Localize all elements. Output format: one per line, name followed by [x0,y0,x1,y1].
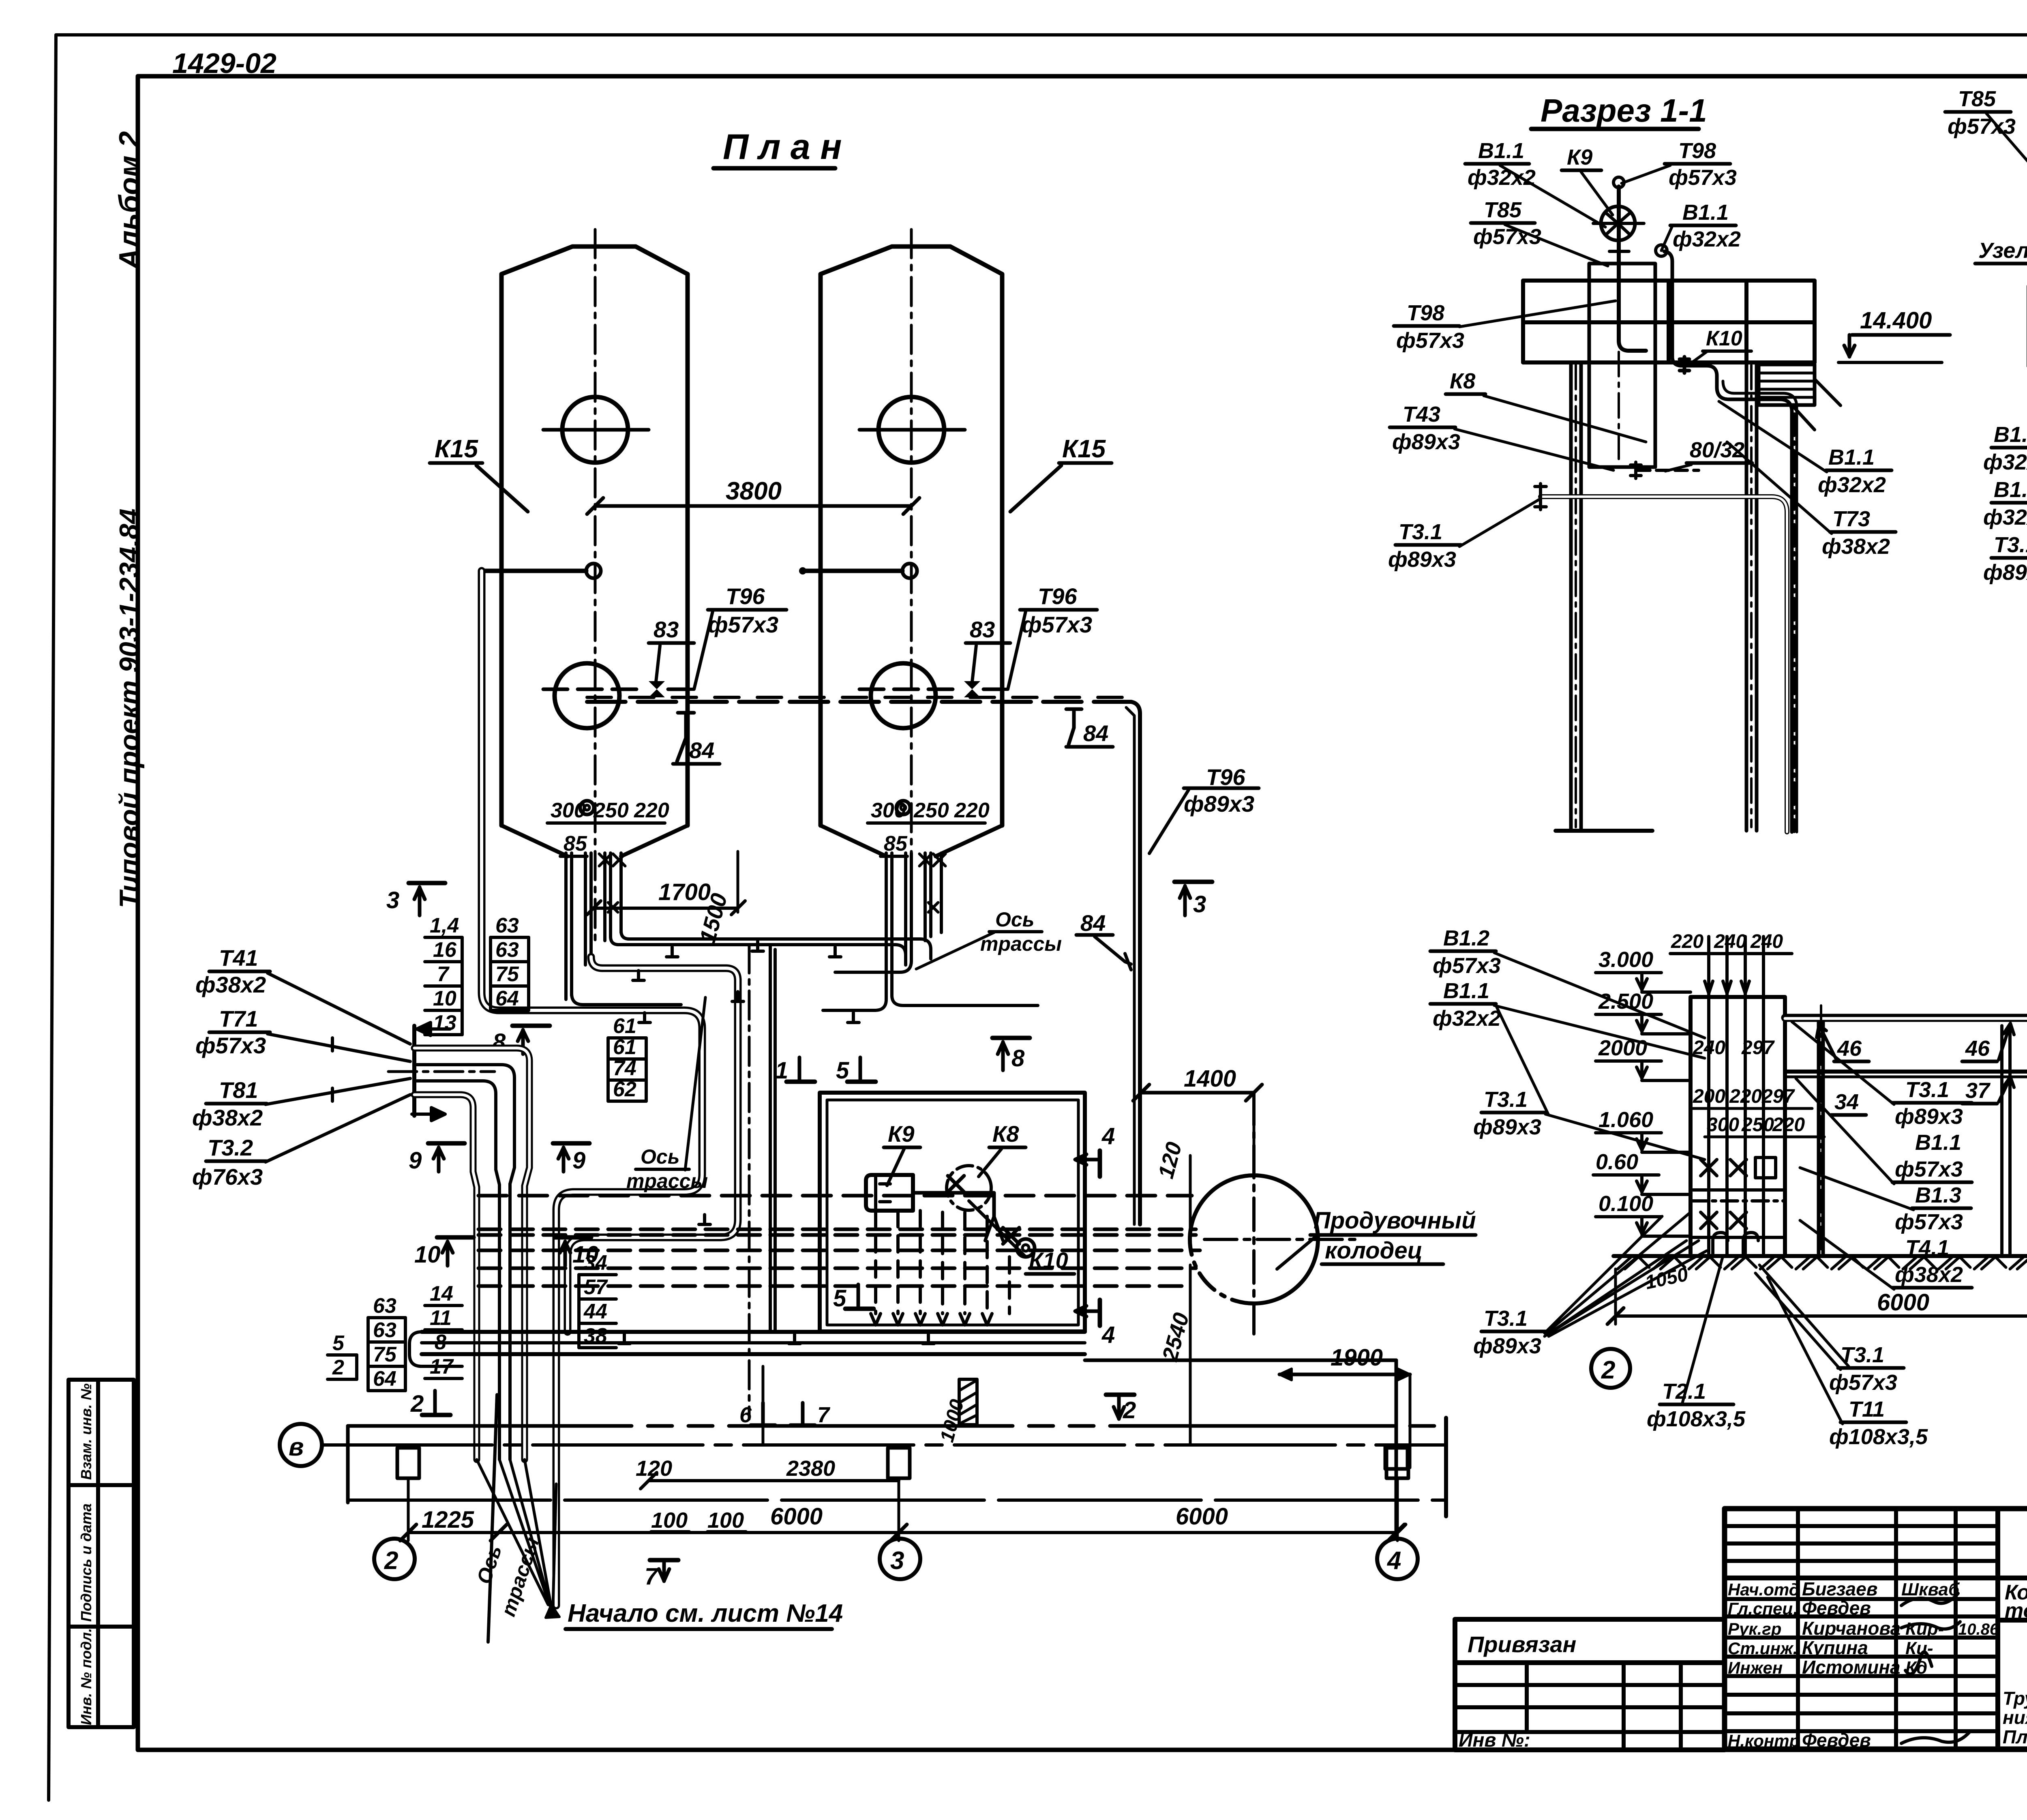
svg-text:ф32х2: ф32х2 [1433,1006,1501,1031]
bundle start cap with arrows [412,1026,416,1116]
svg-text:Истомина: Истомина [1802,1657,1901,1678]
thick central T96 pipe descending [1785,468,2027,1018]
T96 f89x3 label right [1184,764,1254,817]
T96 f57x3 labels [708,583,1092,637]
K10 small fitting on slab [1680,357,1689,373]
svg-text:Т41: Т41 [219,945,258,971]
left tank centerline [594,229,597,941]
svg-text:75: 75 [373,1343,397,1366]
svg-text:Привязан: Привязан [1468,1631,1576,1657]
svg-text:Инжен: Инжен [1728,1658,1783,1677]
svg-text:100: 100 [651,1508,688,1533]
svg-text:Февдев: Февдев [1802,1730,1871,1751]
svg-text:Кирчанова: Кирчанова [1802,1618,1901,1639]
section marks 1 and 5 (middle) [786,1080,815,1084]
drain hooks at bottom of riser [1713,1233,1758,1256]
svg-text:В1.2: В1.2 [1443,926,1489,950]
svg-text:Т3.1: Т3.1 [1399,520,1442,544]
svg-text:297: 297 [1741,1037,1775,1059]
svg-text:16: 16 [433,938,457,962]
svg-text:ф89х3: ф89х3 [1983,560,2027,585]
svg-text:Ось: Ось [641,1145,679,1168]
svg-text:Т98: Т98 [1678,139,1716,163]
svg-text:200: 200 [1693,1086,1725,1107]
K15 labels with leaders [435,435,1106,463]
svg-text:1429-02: 1429-02 [172,47,276,79]
svg-text:14: 14 [430,1282,453,1306]
svg-text:11: 11 [430,1306,452,1330]
svg-text:трассы: трассы [626,1170,708,1192]
svg-text:46: 46 [1965,1036,1990,1061]
svg-text:10.86: 10.86 [1958,1621,1999,1638]
dimension line 1225/6000/6000 [408,1531,1397,1534]
svg-text:6000: 6000 [1877,1289,1929,1316]
svg-text:В1.1: В1.1 [1828,445,1875,469]
wall link to grid 4 [1085,1359,1396,1362]
name rows [1725,1597,1998,1601]
svg-text:3: 3 [386,887,399,913]
svg-text:Продувочный: Продувочный [1313,1207,1476,1234]
svg-text:63: 63 [495,938,519,962]
svg-text:300: 300 [551,799,586,822]
K9 valve assembly on top [1601,206,1635,240]
svg-text:220: 220 [1729,1086,1762,1107]
labels fan left [1983,422,2027,585]
svg-text:14.400: 14.400 [1860,307,1932,334]
svg-text:Ось: Ось [995,908,1034,931]
svg-text:ф57х3: ф57х3 [1669,165,1737,190]
svg-text:К9: К9 [1567,145,1592,169]
svg-text:100: 100 [707,1508,744,1533]
svg-text:Инв. № подл.: Инв. № подл. [78,1628,94,1725]
svg-text:топливо- печное бытовое.: топливо- печное бытовое. [2005,1599,2027,1623]
T98 pipe descending inside shaft, elbow right at bottom [1619,284,1646,351]
svg-text:ф89х3: ф89х3 [1392,430,1460,454]
svg-text:6000: 6000 [770,1503,823,1530]
horizontal pipe runs to the right [1785,1015,2027,1022]
svg-text:10: 10 [414,1241,441,1268]
svg-text:Т3.1: Т3.1 [1484,1306,1528,1331]
svg-text:Т96: Т96 [726,583,765,609]
svg-text:2380: 2380 [786,1456,835,1481]
svg-text:трассы: трассы [980,933,1062,955]
svg-text:Т43: Т43 [1403,402,1440,427]
chimney shaft above/below slab [1589,264,1655,467]
svg-text:ния котельной (наружные): ния котельной (наружные) [2003,1707,2027,1728]
svg-text:Инв №:: Инв №: [1459,1730,1530,1751]
svg-text:Начало см. лист №14: Начало см. лист №14 [568,1599,843,1627]
svg-text:ф57х3: ф57х3 [1829,1370,1897,1395]
svg-text:1900: 1900 [1331,1344,1383,1371]
section mark 3 left [409,881,445,885]
svg-text:6000: 6000 [1176,1503,1228,1530]
svg-text:ф108х3,5: ф108х3,5 [1829,1425,1928,1449]
internal verticals of riser [1709,997,1763,1256]
svg-text:240: 240 [1714,931,1746,952]
svg-text:2: 2 [384,1547,398,1575]
svg-text:64: 64 [495,987,519,1010]
svg-text:3: 3 [1193,891,1206,918]
svg-text:Подпись и дата: Подпись и дата [78,1503,94,1622]
dimensions 300 250 220 above necks [551,799,990,855]
support posts [1819,1022,1823,1256]
svg-text:300: 300 [871,799,906,822]
section marks 4 (right of building) [1098,1151,1102,1177]
T85 connection lines at y=1408 [586,564,601,578]
svg-text:84: 84 [1080,910,1106,936]
svg-text:ф57х3: ф57х3 [1473,225,1541,249]
svg-text:Т96: Т96 [1038,583,1077,609]
svg-text:17: 17 [430,1355,454,1378]
svg-text:Альбом 2: Альбом 2 [114,131,146,270]
columns (walls) below slab [1571,362,1757,831]
svg-text:К15: К15 [1062,435,1106,463]
support T-ticks on pipe runs [619,941,934,1344]
svg-text:К8: К8 [1450,369,1475,393]
svg-text:3800: 3800 [726,477,782,505]
svg-text:В1.1: В1.1 [1994,478,2027,502]
svg-text:9: 9 [409,1147,422,1174]
vertical columns of left table [1796,1509,1800,1749]
svg-text:120: 120 [1154,1140,1187,1181]
svg-text:63: 63 [495,914,519,937]
svg-text:Т3.1: Т3.1 [1905,1078,1949,1102]
svg-text:Т3.2: Т3.2 [208,1135,253,1160]
left risers connecting mains [409,1332,462,1366]
svg-text:2: 2 [332,1356,344,1379]
svg-text:Типовой проект 903-1-234.84: Типовой проект 903-1-234.84 [114,508,145,908]
leaders from bottom-left T3.1 label to riser base [1545,1212,1707,1336]
dims above riser: 220 240 240 [1671,931,1783,952]
left tank funnel [501,825,568,856]
K8 circle with valve [947,1166,991,1210]
svg-text:220: 220 [954,799,990,822]
ticks across bundle [331,1038,334,1101]
svg-text:5: 5 [836,1057,849,1084]
svg-text:1400: 1400 [1184,1065,1236,1092]
elevation ladder left of riser [1596,948,1653,1216]
B1.1 pipe from right top, descending right of shaft [1664,251,1717,387]
svg-text:3: 3 [890,1547,904,1575]
svg-text:Февдев: Февдев [1802,1597,1871,1618]
svg-text:220: 220 [1671,931,1703,952]
texts [1728,1527,2027,1792]
svg-text:46: 46 [1837,1036,1862,1061]
svg-text:10: 10 [433,987,456,1010]
svg-text:ф89х3: ф89х3 [1473,1115,1541,1139]
hatched beam right of right column [1759,364,1815,405]
svg-text:240: 240 [1750,931,1783,952]
svg-text:83: 83 [654,617,679,642]
svg-text:Шкваб: Шкваб [1901,1580,1960,1599]
svg-text:1,4: 1,4 [430,914,459,937]
pipes descending: pair to bottom right [1717,387,1792,832]
svg-text:ф89х3: ф89х3 [1473,1334,1541,1358]
svg-text:Гл.спец.: Гл.спец. [1728,1599,1798,1618]
svg-text:ф89х3: ф89х3 [1184,791,1254,817]
svg-text:Т81: Т81 [219,1077,258,1103]
svg-text:7: 7 [437,963,450,986]
svg-text:250: 250 [593,799,629,822]
svg-text:8: 8 [1011,1045,1025,1072]
svg-text:64: 64 [373,1367,396,1391]
top labels [1948,87,2027,272]
svg-text:85: 85 [884,832,908,855]
svg-text:План. Разрезы.: План. Разрезы. [2003,1726,2027,1747]
svg-text:Т96: Т96 [1206,764,1245,790]
svg-text:4: 4 [1101,1322,1115,1348]
svg-text:6: 6 [739,1403,752,1427]
svg-text:7: 7 [645,1563,659,1590]
left tank drain fitting [580,801,594,815]
svg-text:75: 75 [495,963,519,986]
svg-text:ф76х3: ф76х3 [192,1164,263,1190]
svg-text:ф57х3: ф57х3 [1396,328,1464,353]
section mark 3 right [1174,880,1212,884]
svg-text:1: 1 [775,1057,788,1084]
svg-text:Трубопроводы вне зда-: Трубопроводы вне зда- [2003,1688,2027,1709]
svg-text:8: 8 [435,1331,446,1354]
4 pipes: two double, two single + dashdot [414,1048,529,1460]
svg-text:Т71: Т71 [219,1006,258,1031]
svg-text:Т98: Т98 [1407,301,1444,325]
signature squiggles [1901,1593,1958,1606]
svg-text:61: 61 [613,1014,636,1038]
svg-text:34: 34 [1834,1090,1859,1114]
63/63/75/64 + 14/11/8/17 + 5/2 cluster [332,1282,454,1391]
hatched column + 1000 [959,1379,977,1425]
svg-text:Разрез 1-1: Разрез 1-1 [1541,92,1707,129]
Ось трассы label (upper, middle) [980,908,1062,955]
svg-text:К9: К9 [888,1121,915,1147]
svg-text:К15: К15 [435,435,479,463]
nested horizontal runs: drawn as black path + white core (double line pipes) [482,571,1038,1606]
svg-text:4: 4 [1386,1547,1401,1575]
dashed burner line + valve, left tank [543,688,645,691]
svg-text:220: 220 [1772,1114,1805,1136]
svg-text:13: 13 [433,1011,456,1035]
svg-text:10: 10 [572,1241,599,1268]
84 labels [689,720,1108,936]
svg-text:4: 4 [1101,1123,1115,1149]
section mark 5 inside building [845,1307,874,1311]
svg-text:300: 300 [1707,1114,1739,1136]
riser block rectangle [1691,997,1785,1256]
svg-text:ф32х2: ф32х2 [1673,227,1741,251]
right tank K15 outline [821,247,1002,825]
2380 / 120 / 100 100 dims [636,1456,835,1533]
left neck pipes descend [566,853,621,999]
left tank upper circle [562,397,628,463]
valves inside riser [1691,1158,1785,1237]
svg-text:Т11: Т11 [1849,1397,1885,1421]
svg-text:63: 63 [373,1294,396,1318]
svg-text:Рук.гр: Рук.гр [1728,1619,1781,1638]
T21 T11 labels bottom [1647,1343,1928,1449]
svg-text:Узел Б: Узел Б [1978,238,2027,263]
right side structure [1998,1618,2027,1623]
labels [1388,139,1890,572]
leader lines [1455,165,1832,547]
svg-text:ф32х2: ф32х2 [1983,450,2027,474]
svg-text:в: в [289,1433,304,1461]
svg-text:85: 85 [564,832,587,855]
46 46 45 37 36 34 labels with arrows [1834,1036,2027,1114]
svg-text:83: 83 [970,617,995,642]
svg-text:Бигзаев: Бигзаев [1802,1578,1878,1599]
4000? vertical dim small rotated near hatch [762,1366,765,1443]
80/32 dashed short line [1638,469,1699,472]
stamp column boxes [69,1380,134,1727]
ground line + hatch [1613,1254,2027,1258]
right neck pipes descend [886,853,941,999]
left tank lower circle [555,663,619,728]
svg-text:ф38х2: ф38х2 [195,972,266,997]
svg-text:38: 38 [584,1324,607,1348]
svg-text:220: 220 [634,799,669,822]
svg-text:297: 297 [1761,1086,1795,1107]
svg-text:0.60: 0.60 [1596,1150,1638,1174]
svg-text:В1.1: В1.1 [1478,139,1524,163]
section marks 9, 10 [428,1141,465,1146]
svg-text:ф57х3: ф57х3 [1895,1210,1963,1234]
svg-text:2: 2 [1123,1397,1136,1423]
upper small grid rows [1725,1524,1998,1528]
column stubs [397,1448,419,1478]
svg-text:ф89х3: ф89х3 [1388,547,1456,572]
svg-text:7: 7 [817,1403,831,1427]
svg-text:ф32х2: ф32х2 [1468,165,1536,190]
roof slab band with grid [1523,281,1815,362]
svg-text:57: 57 [584,1276,608,1299]
svg-text:5: 5 [332,1331,345,1355]
svg-text:В1.1: В1.1 [1443,979,1489,1003]
K9 pump assembly [866,1175,913,1211]
svg-text:Т85: Т85 [1484,198,1522,222]
svg-text:Н.контр: Н.контр [1728,1731,1800,1750]
circled v axis [280,1424,322,1466]
svg-text:колодец: колодец [1325,1237,1423,1264]
right side mirrored bends [823,999,886,1010]
svg-text:В1.1: В1.1 [1682,200,1729,225]
svg-text:Купина: Купина [1802,1637,1868,1658]
svg-text:К8: К8 [992,1121,1019,1147]
svg-text:ф32х2: ф32х2 [1983,505,2027,529]
svg-text:5: 5 [833,1285,846,1312]
svg-text:9: 9 [572,1147,585,1174]
solid mains below corridor [422,1330,1085,1334]
svg-text:44: 44 [583,1300,607,1323]
building wall double rectangle [820,1093,1085,1331]
svg-text:Нач.отд: Нач.отд [1728,1580,1800,1599]
svg-text:П л а н: П л а н [723,126,842,167]
dim stacks (small ladders of numbers) [430,914,459,1035]
grid circles 2 and 3 [1591,1349,1630,1388]
svg-text:1225: 1225 [422,1507,474,1533]
svg-text:ф57х3: ф57х3 [195,1033,266,1058]
svg-text:250: 250 [913,799,949,822]
svg-text:2: 2 [410,1391,424,1417]
left tank K15 outline [501,247,688,825]
pipes above riser with arrows down [1705,937,1763,997]
svg-text:Т3.1: Т3.1 [1484,1087,1528,1112]
83 labels [654,617,995,642]
svg-text:Т3.1: Т3.1 [1994,533,2027,557]
svg-text:ф38х2: ф38х2 [192,1105,263,1130]
center vertical dash-dot (axis of trasse) [748,945,751,1419]
long run from right neck to right edge pipes [892,995,1038,1005]
svg-text:Т85: Т85 [1958,87,1996,111]
svg-text:ф89х3: ф89х3 [1895,1104,1963,1129]
right tank [859,688,960,691]
svg-text:ф57х3: ф57х3 [708,612,778,637]
section marks 8 [512,1024,550,1028]
K10 valve on diagonal [1003,1228,1019,1244]
long T96 dashed run across and elbow down right [587,700,1131,704]
svg-text:ф57х3: ф57х3 [1433,954,1501,978]
T3.1 horizontal pipe lower left [1541,497,1787,832]
svg-text:63: 63 [373,1318,396,1342]
svg-text:В1.1: В1.1 [1915,1130,1961,1155]
svg-text:1700: 1700 [658,879,711,905]
svg-text:2: 2 [1601,1356,1615,1384]
svg-text:К10: К10 [1706,327,1742,350]
svg-text:84: 84 [1083,720,1108,746]
svg-text:250: 250 [1741,1114,1774,1136]
svg-text:1.060: 1.060 [1598,1108,1653,1132]
svg-text:Ст.инж.: Ст.инж. [1728,1639,1798,1658]
svg-text:ф57х3: ф57х3 [1022,612,1092,637]
34/57/44/38 stack [583,1251,608,1348]
section marks 2 left/right [422,1413,450,1417]
vent pipe with top circle [1617,187,1621,284]
svg-text:ф108х3,5: ф108х3,5 [1647,1407,1746,1431]
labels fan right of riser [1895,1078,1963,1287]
svg-text:2540: 2540 [1157,1310,1193,1364]
svg-text:ф57х3: ф57х3 [1895,1157,1963,1181]
section mark 7 bottom [650,1558,678,1563]
svg-text:ф38х2: ф38х2 [1822,534,1890,559]
svg-text:37: 37 [1965,1078,1991,1103]
pipe crossing x-marks under necks [599,854,945,912]
internal dims texts [1693,1037,1805,1136]
grid circles 2 3 4 [374,1539,415,1579]
svg-text:В1.1: В1.1 [1994,422,2027,447]
fan labels left: T3.2, B1.2, B1.1 etc [1433,926,1541,1358]
svg-text:Взам. инв. №: Взам. инв. № [78,1383,94,1480]
extra support post at 4948 [2000,1026,2003,1256]
svg-text:ф32х2: ф32х2 [1818,473,1886,497]
svg-text:84: 84 [689,737,714,763]
svg-text:3.000: 3.000 [1598,948,1653,972]
svg-text:В1.3: В1.3 [1915,1183,1961,1207]
marks 6 and 7 [751,1423,775,1428]
dashed drops from assembly into corridor [876,1211,1009,1314]
axis lines [322,1443,1446,1447]
svg-text:Т73: Т73 [1832,507,1870,531]
K9 K8 labels [888,1121,1019,1147]
svg-text:2000: 2000 [1598,1036,1647,1060]
